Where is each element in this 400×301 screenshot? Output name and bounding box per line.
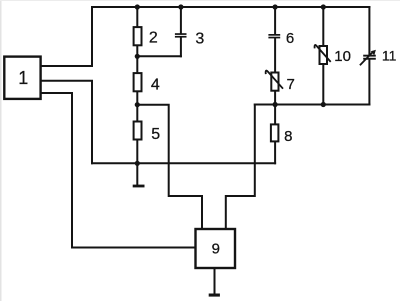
svg-text:7: 7	[287, 76, 295, 93]
svg-text:4: 4	[151, 76, 160, 93]
svg-text:5: 5	[151, 126, 160, 143]
svg-text:1: 1	[18, 68, 28, 88]
svg-text:9: 9	[212, 241, 220, 258]
svg-text:2: 2	[149, 29, 158, 46]
svg-text:6: 6	[286, 30, 294, 47]
svg-text:11: 11	[382, 48, 397, 64]
svg-text:8: 8	[284, 128, 292, 145]
svg-text:10: 10	[334, 48, 351, 65]
svg-text:3: 3	[195, 30, 204, 47]
